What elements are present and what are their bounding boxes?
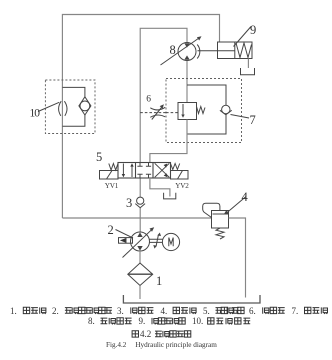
wire: branch to check valve in V7 bbox=[187, 85, 226, 134]
wire: valve5 T drain bbox=[150, 178, 170, 197]
V5 right spring bbox=[171, 164, 180, 170]
svg-text:3: 3 bbox=[126, 196, 132, 210]
balance valve assembly V7 dashed enclosure bbox=[166, 79, 242, 143]
wire: bottom edge to relief valve bbox=[62, 217, 211, 219]
wire: V10 bypass branch bbox=[62, 87, 85, 126]
svg-text:YV1: YV1 bbox=[105, 182, 119, 190]
tank under valve 5 bbox=[164, 193, 176, 199]
svg-text:4: 4 bbox=[242, 190, 249, 204]
svg-text:6.: 6. bbox=[249, 306, 256, 316]
hydraulic motor U8 bbox=[161, 36, 202, 65]
check valve C3 bbox=[135, 197, 145, 208]
throttle arcs V10 bbox=[59, 101, 67, 116]
caption line 1 bbox=[10, 306, 328, 316]
pilot line with throttle 6 bbox=[140, 112, 166, 114]
svg-text:1.: 1. bbox=[10, 306, 17, 316]
V5 right solenoid YV2 bbox=[171, 171, 189, 180]
tank reservoir bbox=[123, 295, 260, 303]
check valve in V10 bbox=[79, 97, 91, 115]
wire: pump suction to filter bbox=[139, 251, 141, 263]
svg-text:9.: 9. bbox=[139, 316, 146, 326]
V5 position 3 crossed arrows bbox=[155, 163, 170, 177]
svg-text:9: 9 bbox=[250, 23, 256, 37]
wire: filter to tank bbox=[139, 286, 141, 300]
throttle valve V6 bbox=[150, 104, 165, 119]
wire: valve5 A-port up to motor top elbow bbox=[140, 28, 187, 162]
svg-text:5.: 5. bbox=[203, 306, 210, 316]
svg-text:8.: 8. bbox=[88, 316, 95, 326]
caption line 3 bbox=[132, 329, 191, 339]
svg-text:2: 2 bbox=[108, 223, 114, 237]
balance valve square V7 bbox=[166, 103, 205, 120]
shaft pump to motor M bbox=[150, 233, 163, 249]
electric motor M bbox=[162, 233, 179, 250]
svg-text:7.: 7. bbox=[292, 306, 299, 316]
wire: motor bottom to balance valve box bbox=[186, 61, 188, 103]
one-way throttle V10 dashed enclosure bbox=[45, 80, 95, 134]
V5 position 2 blocked ports bbox=[137, 163, 151, 179]
svg-text:Fig.4.2 Hydraulic principl: Fig.4.2 Hydraulic principle diagram bbox=[106, 341, 217, 349]
svg-text:5: 5 bbox=[96, 150, 102, 164]
label 2 leader bbox=[116, 230, 134, 239]
filter F1 bbox=[128, 263, 153, 286]
proportional variable pump U2 bbox=[123, 227, 155, 257]
label 4 leader with arrow bbox=[227, 197, 246, 213]
svg-text:2.: 2. bbox=[52, 306, 59, 316]
svg-text:4.2: 4.2 bbox=[140, 329, 151, 339]
svg-text:10: 10 bbox=[30, 108, 41, 120]
tank under cylinder 9 bbox=[241, 68, 255, 75]
svg-text:4.: 4. bbox=[161, 306, 168, 316]
svg-text:10.: 10. bbox=[192, 316, 203, 326]
node: main pressure line P (pump to valve 5) bbox=[139, 208, 141, 232]
brake cylinder U9 bbox=[198, 42, 253, 59]
svg-text:1: 1 bbox=[156, 274, 162, 288]
V5 position 1 arrows bbox=[122, 163, 134, 177]
wire: valve5 B-port elbow to balance valve bbox=[150, 120, 187, 163]
wire: cylinder drain bbox=[247, 59, 249, 69]
svg-text:7: 7 bbox=[250, 113, 256, 127]
caption line 2 bbox=[88, 316, 250, 326]
V5 left spring bbox=[109, 164, 118, 171]
proportional solenoid on pump bbox=[119, 238, 133, 244]
wire: check valve 3 to valve 5 port P bbox=[139, 178, 141, 197]
label 9 leader bbox=[234, 27, 252, 47]
relief valve V4 bbox=[203, 203, 229, 239]
svg-text:8: 8 bbox=[170, 43, 176, 57]
directional valve V5 body bbox=[118, 163, 171, 179]
svg-text:YV2: YV2 bbox=[175, 182, 189, 190]
svg-text:3.: 3. bbox=[117, 306, 124, 316]
check valve in V7 bbox=[220, 105, 232, 115]
wire: outer loop top edge bbox=[62, 15, 219, 219]
wire: relief valve outlet to tank bbox=[229, 218, 246, 298]
label 10 leader bbox=[38, 102, 59, 111]
label 7 leader bbox=[231, 115, 250, 119]
svg-text:6: 6 bbox=[146, 95, 151, 105]
V5 left solenoid YV1 bbox=[100, 171, 119, 180]
